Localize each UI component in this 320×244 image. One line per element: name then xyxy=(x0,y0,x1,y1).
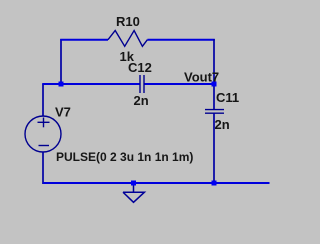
svg-text:R10: R10 xyxy=(116,14,140,29)
svg-text:C11: C11 xyxy=(216,90,239,105)
svg-text:C12: C12 xyxy=(128,60,152,75)
wire: node A horizontal run to C12 xyxy=(42,83,140,85)
svg-text:2n: 2n xyxy=(134,93,149,108)
node junction ground (133.5,183) xyxy=(131,181,136,186)
resistor R10 xyxy=(108,31,147,47)
voltage source V7 xyxy=(25,116,61,152)
capacitor C11 plates xyxy=(205,109,224,111)
wire: V7 top stub vertical xyxy=(42,84,44,116)
node junction bottom right (214,183) xyxy=(212,181,217,186)
wire: C11 bottom stub xyxy=(213,113,215,183)
node junction at Vout (214,84) xyxy=(212,82,217,87)
wire: C12 right plate to Vout node xyxy=(144,83,214,85)
wire: bottom rail xyxy=(43,182,270,184)
node junction at A (61,84) xyxy=(59,82,64,87)
svg-text:2n: 2n xyxy=(215,117,230,132)
ground xyxy=(123,183,144,202)
wire: C11 top stub xyxy=(213,84,215,109)
wire: V7 bottom stub xyxy=(42,152,44,184)
svg-text:V7: V7 xyxy=(55,104,71,119)
svg-text:Vout7: Vout7 xyxy=(184,70,219,85)
wire: top rail left segment xyxy=(60,39,108,41)
wire: right vertical (top rail down to Vout) xyxy=(213,39,215,84)
V7 plus sign xyxy=(38,121,50,123)
wire: left vertical (node A up to top rail) xyxy=(60,39,62,84)
svg-text:PULSE(0 2 3u 1n 1n 1m): PULSE(0 2 3u 1n 1n 1m) xyxy=(56,150,193,164)
wire: top rail right segment xyxy=(147,39,214,41)
V7 minus sign xyxy=(39,145,50,147)
capacitor C12 plates xyxy=(139,75,141,93)
